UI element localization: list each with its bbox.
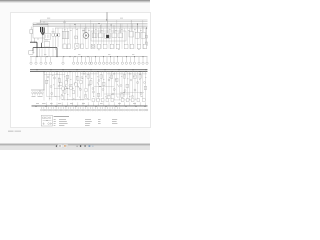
block connector housing upper — [44, 33, 50, 39]
sensor SC14 circle — [74, 83, 76, 85]
sensor SC18 circle — [47, 76, 49, 78]
legend wire symbol — [43, 119, 52, 121]
terminal ground circle R6 — [134, 109, 136, 111]
terminal ground circle 4 — [48, 109, 50, 111]
wire drop to terminal 3 — [40, 57, 42, 62]
node bus junction J13 — [119, 69, 120, 70]
switch LB2 — [58, 79, 60, 83]
label wire id 3 — [50, 102, 53, 105]
wire column midleft c — [57, 28, 59, 47]
terminal circle T3 — [40, 62, 42, 64]
label legend title ABBREVIATIONS USED ON WIRING DIAGRAMS — [54, 115, 69, 118]
icon previous page arrow — [56, 145, 58, 147]
label code U14 — [66, 47, 68, 50]
wire drop to terminal 1 — [30, 57, 32, 62]
switch S6 box — [81, 44, 84, 48]
label abbr ACC ACCESSORY colB — [59, 120, 67, 123]
label code U21 — [138, 48, 140, 51]
lamp L1 box — [124, 44, 128, 49]
page number input box — [58, 145, 63, 148]
lamp LB4 — [69, 84, 71, 86]
label code U13 — [140, 29, 142, 32]
node band junction 1 — [56, 72, 59, 75]
node ground bus junction 10 — [125, 105, 128, 108]
fuse LB18 — [134, 75, 136, 79]
wire drop to terminal 11 — [89, 57, 91, 62]
wire branch V18 — [87, 72, 89, 101]
connector CB5 box — [111, 99, 114, 102]
terminal ground circle 9 — [60, 109, 62, 111]
label code U4 — [82, 30, 84, 33]
wire ground tick 9 — [60, 107, 62, 109]
relay K3 box — [98, 33, 103, 38]
wire drop to terminal 15 — [103, 57, 105, 62]
wire drop to terminal 6 — [62, 57, 64, 62]
switch S10 box — [143, 44, 146, 48]
wire thick mid drop — [36, 48, 38, 57]
label micro code 29 — [145, 76, 146, 79]
wire end into bus 11 — [98, 102, 100, 105]
wire ground tick 13 — [70, 107, 72, 109]
wire drop to terminal 24 — [138, 57, 140, 62]
terminal ground circle 3 — [45, 109, 47, 111]
wire drop from top edge b — [107, 12, 109, 21]
wire ground tick 28 — [107, 107, 109, 109]
wire bottom ground bus 1 — [32, 105, 148, 107]
label net name top right — [120, 17, 123, 20]
wire drop to terminal 8 — [77, 57, 79, 62]
wire top bus B+ line 1 — [40, 19, 148, 21]
diode D1 right edge — [145, 35, 147, 38]
terminal ground circle 18 — [82, 109, 84, 111]
label wire id 1 — [36, 102, 39, 105]
label code U15 — [74, 48, 76, 51]
sensor SC3 circle — [92, 88, 94, 90]
fuse FB1 box — [60, 82, 62, 85]
lamp LB28 — [84, 95, 86, 99]
label collector b — [78, 53, 80, 56]
terminal circle T16 — [106, 62, 108, 64]
wire ground tick 12 — [67, 107, 69, 109]
terminal ground circle 14 — [72, 109, 74, 111]
node junction bus 2 — [98, 22, 101, 25]
label micro code 19 — [85, 75, 86, 78]
wire drop to terminal 2 — [35, 57, 37, 62]
sensor SC8 circle — [120, 85, 122, 87]
wire column U33 — [144, 28, 146, 49]
switch LB20 — [139, 75, 141, 79]
wire K3 up — [99, 25, 101, 33]
wire ground tick 25 — [99, 107, 101, 109]
wire branch V32 — [124, 72, 126, 97]
wire ground tick 26 — [102, 107, 104, 109]
wire column midleft b — [55, 28, 57, 50]
label code U22 — [144, 47, 146, 50]
connector CB2 box — [97, 99, 100, 102]
node ground bus junction 7 — [95, 105, 98, 108]
terminal ground circle 13 — [70, 109, 72, 111]
wire ground tick 2 — [43, 107, 45, 109]
terminal circle T7 — [72, 62, 74, 64]
wire column U19 — [108, 28, 110, 49]
wire ground tick 33 — [119, 107, 121, 109]
connector X1 pin 4 — [39, 92, 41, 94]
wire housing drop b — [41, 48, 43, 56]
relay K10 box — [141, 32, 145, 38]
wire thin triangle out — [42, 35, 44, 42]
wire drop to terminal 16 — [106, 57, 108, 62]
wire thick triangle drop — [41, 43, 43, 48]
wire branch V31 — [121, 72, 123, 101]
wire end into bus 3 — [56, 102, 58, 105]
fuse bank dark bar 2 — [42, 27, 43, 32]
sensor SC7 circle — [112, 93, 114, 95]
wire K8 up — [130, 20, 132, 31]
node bus junction J3 — [51, 69, 52, 70]
connector X1 pin 1 — [32, 92, 34, 94]
label code U17 — [98, 49, 100, 52]
terminal ground circle R1 — [121, 109, 123, 111]
terminal ground circle 17 — [80, 109, 82, 111]
wire end into bus 13 — [108, 102, 110, 105]
terminal ground circle 24 — [97, 109, 99, 111]
node collector junction 11 — [109, 55, 112, 58]
node band junction 8 — [139, 72, 142, 75]
wire drop to terminal 22 — [129, 57, 131, 62]
label code U7 — [101, 29, 103, 32]
connector CB6 box — [121, 99, 124, 102]
wire branch V6 — [56, 72, 58, 101]
wire column U25 — [124, 28, 126, 49]
node dark mark cluster — [57, 35, 58, 36]
switch S7 box — [97, 44, 101, 48]
label micro code 39 — [141, 95, 142, 98]
wire column U8 — [79, 24, 81, 49]
terminal ground circle 7 — [55, 109, 57, 111]
label abbr col D row1 — [98, 118, 101, 121]
label code U12 — [134, 28, 136, 31]
wire housing drop a — [39, 48, 41, 56]
wire cluster link up — [39, 20, 41, 23]
wire X1 header line — [31, 89, 45, 91]
wire R1 top — [30, 27, 32, 30]
node ground bus junction 2 — [45, 105, 48, 108]
node collector junction 5 — [69, 55, 72, 58]
terminal circle T19 — [116, 62, 118, 64]
wire main bus line 1 — [30, 69, 148, 71]
relay K6 box — [105, 33, 111, 38]
wire ground tick 6 — [53, 107, 55, 109]
label micro code 10 — [65, 85, 66, 88]
label collector a — [44, 53, 46, 56]
wire M1 up — [85, 27, 87, 33]
wire branch V7 — [59, 72, 61, 101]
sensor LB9 — [90, 81, 92, 85]
wire drop to terminal 25 — [142, 57, 144, 62]
label wire id 7 — [100, 102, 103, 105]
label abbr col C row3 — [85, 122, 90, 125]
sensor SC15 circle — [66, 80, 68, 82]
fuse FB2 box — [65, 81, 67, 84]
switch LB14 — [113, 88, 115, 90]
node band junction 7 — [123, 91, 126, 94]
node bus junction J16 — [140, 71, 141, 72]
gauge G1 box — [91, 44, 95, 48]
wire ground tick 27 — [104, 107, 106, 109]
zoom percent box — [63, 145, 68, 148]
label X1 text b — [38, 95, 43, 98]
label wire id 9 — [133, 102, 136, 105]
label M1 — [83, 29, 86, 32]
wire column U14 — [95, 24, 97, 49]
wire column U15 — [98, 28, 100, 49]
wire branch V25 — [105, 72, 107, 101]
resistor LB7 — [79, 88, 81, 90]
switch S2 box — [103, 44, 107, 49]
wire column U10 — [85, 24, 87, 49]
wire branch V23 — [100, 72, 102, 97]
wire top bus ACC line — [37, 23, 148, 25]
terminal circle T21 — [125, 62, 127, 64]
sensor LB21 — [45, 80, 47, 84]
wire drop to terminal 7 — [73, 57, 75, 62]
fuse FB6 box — [85, 88, 87, 91]
terminal ground circle 16 — [77, 109, 79, 111]
terminal circle T13 — [94, 62, 96, 64]
terminal ground circle R10 — [144, 109, 146, 111]
label wire id 8 — [118, 102, 121, 105]
label abbr col E row2 — [112, 120, 117, 123]
connector X1 pin 5 — [41, 92, 43, 94]
fuse FB8 box — [62, 87, 64, 90]
motor M1 blower circle — [83, 33, 89, 39]
wire top bus B+ line 2 — [40, 20, 148, 22]
terminal ground circle 10 — [63, 109, 65, 111]
label collector c — [108, 53, 110, 56]
label abbr IGN IGNITION colB — [59, 122, 68, 125]
connector X1 pin 2 — [34, 92, 36, 94]
terminal circle T10 — [84, 62, 86, 64]
wire ground tick 19 — [85, 107, 87, 109]
wire link H5 — [62, 99, 84, 101]
wire drop to terminal 5 — [50, 57, 52, 62]
node junction bus 3 — [110, 24, 113, 27]
label abbr col C row4 — [85, 124, 90, 127]
wire ground tick 23 — [94, 107, 96, 109]
node ground bus junction 3 — [55, 105, 58, 108]
wire link H7 — [114, 99, 134, 101]
wire cluster link up2 — [43, 21, 45, 23]
wire drop to terminal 12 — [91, 57, 93, 62]
wire end into bus 9 — [87, 102, 89, 105]
wire column U30 — [137, 24, 139, 49]
label code U10 — [121, 28, 123, 31]
wire branch V19 — [90, 72, 92, 101]
terminal circle T4 — [45, 62, 47, 64]
wire right edge column — [145, 28, 147, 49]
terminal ground circle 28 — [107, 109, 109, 111]
wire branch V35 — [131, 72, 133, 97]
wire thick main feed down — [36, 42, 38, 47]
label code U20 — [130, 47, 132, 50]
label micro code 22 — [103, 78, 104, 81]
terminal circle T11 — [88, 62, 90, 64]
wire end into bus 16 — [124, 102, 126, 105]
fuse FB5 box — [80, 80, 82, 83]
label code U18 — [110, 47, 112, 50]
wire ground tick 16 — [77, 107, 79, 109]
wire link H4 — [104, 93, 130, 95]
label micro code 8 — [53, 84, 54, 87]
wire X1 drop from bus — [43, 72, 45, 90]
node bus junction J2 — [44, 71, 45, 72]
wire ground tick 14 — [72, 107, 74, 109]
label abbr col E row3 — [112, 122, 117, 125]
fuse LB12 — [103, 82, 105, 86]
terminal circle T8 — [76, 62, 78, 64]
node band junction 4 — [129, 72, 132, 75]
wire branch V16 — [82, 72, 84, 101]
connector CB4 box — [106, 99, 109, 102]
terminal ground circle R9 — [142, 109, 144, 111]
sensor SC17 circle — [50, 86, 52, 88]
resistor R1 ballast — [30, 29, 33, 33]
terminal pin circle a — [34, 41, 35, 42]
wire link H3 — [54, 87, 74, 89]
wire R1 bottom — [30, 34, 32, 43]
node band junction 5 — [66, 87, 69, 90]
icon fit page — [85, 145, 86, 147]
label code U19 — [118, 48, 120, 51]
wire column U20 — [111, 24, 113, 49]
terminal ground circle R7 — [136, 109, 138, 111]
icon zoom in — [80, 145, 81, 147]
node bus junction J12 — [112, 71, 113, 72]
terminal ground circle 33 — [119, 109, 121, 111]
label micro code 25 — [121, 75, 122, 78]
block control unit A1 outline — [91, 31, 126, 41]
wire ground tick 17 — [80, 107, 82, 109]
wire drop to terminal 4 — [45, 57, 47, 62]
wire flasher up — [113, 25, 115, 33]
fuse bank dark bar 1 — [40, 27, 41, 32]
node collector junction 2 — [46, 55, 49, 58]
resistor R2 right edge — [145, 42, 147, 45]
label micro code 33 — [105, 96, 106, 99]
resistor LB1 — [53, 77, 55, 79]
node collector junction 12 — [116, 55, 119, 58]
label code U11 — [128, 29, 130, 32]
resistor LB13 — [110, 75, 112, 79]
terminal circle T20 — [121, 62, 123, 64]
connector CB3 box — [101, 99, 104, 102]
terminal circle T18 — [113, 62, 115, 64]
sensor SC2 circle — [88, 84, 90, 86]
label code U9 — [115, 29, 117, 32]
wire column U3 — [66, 28, 68, 49]
label abbr col C row1 — [85, 118, 91, 121]
wire end into bus 7 — [77, 102, 79, 105]
lamp LB22 — [51, 92, 53, 94]
wire housing drop c — [44, 47, 46, 57]
wire thick battery feed horiz — [30, 41, 37, 43]
label micro code 15 — [61, 93, 62, 96]
label micro code 37 — [129, 95, 130, 98]
wire link H6 — [107, 73, 147, 75]
wire K4 up — [119, 24, 121, 33]
terminal ground circle R5 — [131, 109, 133, 111]
wire branch V29 — [116, 72, 118, 97]
terminal circle T26 — [146, 62, 148, 64]
node ground bus junction 9 — [115, 105, 118, 108]
lamp L3 box — [75, 44, 79, 49]
block housing top edge dark — [33, 23, 48, 25]
wire column U12 — [90, 20, 92, 49]
block connector housing lower — [44, 41, 49, 47]
wire branch V36 — [134, 72, 136, 101]
wire branch V20 — [92, 72, 94, 97]
wire column U1 — [61, 28, 63, 49]
label X1 text a — [32, 95, 36, 98]
node bus junction J8 — [84, 71, 85, 72]
node bus junction J5 — [63, 69, 64, 70]
node bus junction J14 — [126, 71, 127, 72]
label abbr col D row3 — [98, 122, 101, 125]
terminal circle T9 — [80, 62, 82, 64]
switch S4 box — [137, 44, 141, 49]
wire branch V12 — [72, 72, 74, 101]
wire link H2 — [80, 73, 99, 75]
wire branch V17 — [85, 72, 87, 97]
sensor LB27 — [61, 96, 63, 100]
wire ground tick 32 — [116, 107, 118, 109]
terminal ground circle 2 — [43, 109, 45, 111]
terminal ground circle 20 — [87, 109, 89, 111]
terminal ground circle 15 — [75, 109, 77, 111]
relay LB29 — [108, 95, 110, 99]
terminal circle T22 — [129, 62, 131, 64]
label micro code 18 — [79, 96, 80, 99]
switch S9 box — [130, 44, 134, 49]
connector pins under switch — [35, 38, 48, 42]
wire ground tick 24 — [97, 107, 99, 109]
relay K7 box left — [62, 31, 69, 39]
terminal circle T25 — [142, 62, 144, 64]
wire X1 pin tail 1 — [32, 94, 34, 96]
wire main bus line 2 — [30, 71, 148, 73]
terminal ground circle 5 — [50, 109, 52, 111]
wire thick right branch down — [56, 48, 58, 57]
op-amp K1 triangle symbol — [41, 32, 45, 35]
wire column U13 — [92, 28, 94, 49]
switch blade stroke c — [97, 82, 99, 85]
relay LB23 — [97, 93, 99, 97]
node top junction a — [105, 19, 108, 22]
wire column U17 — [103, 28, 105, 49]
label micro code 7 — [47, 79, 48, 82]
sensor SC6 circle — [108, 79, 110, 81]
sensor SC9 circle — [124, 90, 126, 92]
sensor SC13 circle — [144, 82, 146, 84]
wire branch V11 — [69, 72, 71, 97]
terminal ground circle R11 — [146, 109, 148, 111]
switch S1b box — [67, 44, 70, 48]
node collector junction 1 — [36, 55, 39, 58]
wire ground tick 31 — [114, 107, 116, 109]
node bus junction J6 — [70, 71, 71, 72]
wire bottom ground bus 2 — [32, 106, 148, 108]
block ignition switch housing — [33, 23, 48, 38]
